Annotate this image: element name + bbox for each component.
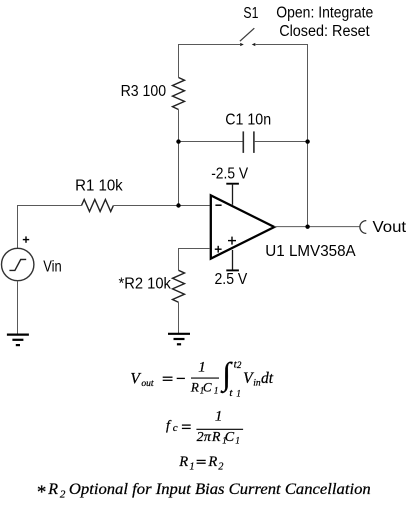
source V1 plus polarity mark [23,236,29,242]
svg-text:dt: dt [261,370,274,387]
label -2.5 V [211,166,248,183]
label C1 10n [225,111,271,128]
ground under R2 [168,334,190,345]
svg-text:C1 10n: C1 10n [225,111,271,128]
ground under Vin [7,335,29,346]
node output junction dot [305,225,309,229]
svg-text:R: R [207,454,217,470]
svg-text:R: R [178,454,188,470]
svg-text:1: 1 [236,389,241,399]
wire Vin to ground [17,281,19,335]
port Vout arc [360,221,366,234]
svg-text:1: 1 [190,462,195,473]
svg-text:2.5 V: 2.5 V [215,271,248,288]
svg-text:Vout: Vout [373,219,407,236]
svg-text:R3 100: R3 100 [121,83,167,100]
wire R1 to op-amp inverting input [113,205,209,207]
formula cutoff frequency fc [166,409,243,446]
svg-text:R: R [47,481,58,498]
node inverting-input junction dot [176,203,180,207]
svg-text:-2.5 V: -2.5 V [211,166,248,183]
svg-text:C: C [225,430,235,445]
wire right rail [307,44,309,227]
wire Vin vertical [17,205,19,248]
svg-text:R1 10k: R1 10k [75,178,123,195]
switch S1 left contact arrow [240,43,244,46]
label Closed: Reset [279,23,370,40]
svg-text:Closed: Reset: Closed: Reset [279,23,370,40]
svg-text:π: π [204,430,212,445]
svg-text:S1: S1 [243,5,258,22]
svg-text:f: f [166,418,172,433]
svg-text:*R2 10k: *R2 10k [119,275,172,292]
label R3 100 [121,83,167,100]
svg-text:in: in [253,379,261,389]
label Vout [373,219,407,236]
wire op-amp non-inverting input to R2 [179,249,210,271]
wire switch to top-right corner [256,44,308,46]
wire top-left horizontal to switch [179,44,241,46]
wire left rail middle [178,110,180,206]
svg-text:R: R [190,379,199,394]
source Vin ramp waveform glyph [9,259,26,270]
power -2.5V T-bar [226,184,239,205]
capacitor C1 [243,131,254,153]
svg-text:*: * [36,482,46,503]
node C1-right junction dot [305,139,309,143]
svg-text:Optional for Input Bias Curren: Optional for Input Bias Current Cancella… [69,481,371,498]
wire left rail top [178,44,180,78]
wire Vin to R1 [18,205,82,207]
resistor R3 [173,78,185,110]
switch S1 blade [240,28,254,41]
svg-text:C: C [203,379,212,394]
resistor R2 [173,270,185,302]
wire R2 to ground [178,302,180,333]
label U1 LMV358A [265,243,356,260]
wire C1 left lead [179,141,243,143]
svg-text:Vin: Vin [43,258,62,275]
label *R2 10k [119,275,172,292]
svg-text:t: t [229,387,233,399]
svg-text:2: 2 [60,489,66,501]
wire op-amp output [274,226,360,228]
op-amp non-inverting input plus sign [215,246,222,253]
wire C1 right lead [255,141,308,143]
formula integrator equation Vout [130,355,273,399]
svg-text:1: 1 [235,436,240,446]
label R1 10k [75,178,123,195]
op-amp positive supply plus sign [228,237,236,245]
svg-text:1: 1 [215,409,223,425]
svg-text:U1 LMV358A: U1 LMV358A [265,243,356,260]
power 2.5V T-bar [226,250,239,271]
switch S1 right contact arrow [252,43,256,46]
svg-text:2: 2 [237,360,242,370]
svg-text:1: 1 [198,360,206,376]
svg-text:Open: Integrate: Open: Integrate [276,5,373,22]
svg-text:c: c [173,422,178,434]
svg-text:1: 1 [214,386,219,396]
label Open: Integrate [276,5,373,22]
node C1-left junction dot [176,139,180,143]
formula R1 equals R2 [178,454,223,473]
label Vin [43,258,62,275]
svg-text:2: 2 [218,462,223,473]
source Vin circle body [2,248,34,280]
svg-text:V: V [130,370,141,387]
label 2.5 V [215,271,248,288]
footnote R2 optional note [36,481,371,503]
resistor R1 [82,200,114,212]
op-amp U1 [211,195,274,258]
svg-text:out: out [141,379,154,389]
svg-text:R: R [211,430,221,445]
label S1 [243,5,258,22]
op-amp inverting input minus sign [215,204,221,206]
svg-text:2: 2 [197,430,204,445]
